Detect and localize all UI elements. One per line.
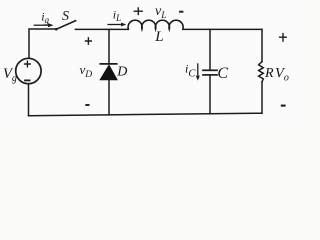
svg-text:R: R xyxy=(264,66,274,81)
svg-text:D: D xyxy=(116,64,127,79)
svg-text:L: L xyxy=(154,29,163,45)
svg-text:S: S xyxy=(62,9,69,24)
svg-text:C: C xyxy=(217,65,228,82)
